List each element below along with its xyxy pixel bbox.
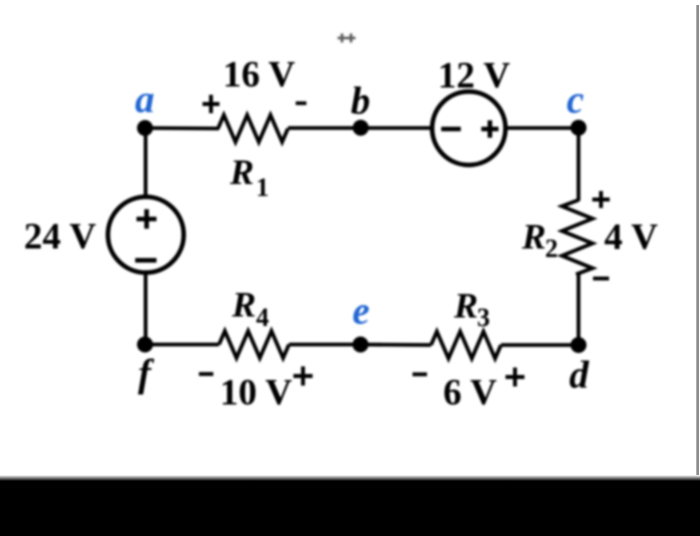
svg-text:4: 4 [256,303,269,332]
minus polarity at R4 left [199,372,213,376]
resistor R4 [219,331,289,358]
wire R1 right to node b [288,126,361,130]
node c junction dot [571,120,587,136]
plus polarity at R2 top [592,191,609,208]
svg-text:2: 2 [545,234,558,263]
svg-text:d: d [569,354,589,397]
svg-text:R: R [229,152,254,192]
bottom black bar [0,0,1,1]
node a junction dot [137,120,153,136]
svg-text:R: R [453,286,478,326]
wire source V1 up to node a [144,128,148,197]
right edge gray line [696,5,699,480]
resistor R2 (vertical) [562,200,593,274]
wire node d to R3 right [501,343,579,347]
svg-text:24 V: 24 V [24,217,97,258]
voltage source V2 12V circle [432,92,505,165]
svg-text:6 V: 6 V [443,373,497,414]
svg-text:R: R [521,217,546,257]
wire node f up to source V1 [144,272,148,345]
cursor mark ++ [338,34,356,43]
node b junction dot [353,120,369,136]
resistor R1 [218,115,288,142]
wire node e to R4 right [289,343,360,347]
svg-text:R: R [231,285,256,325]
plus polarity at R3 right [506,368,525,387]
svg-text:a: a [135,78,155,121]
voltage source V1 24V circle [108,197,184,273]
plus polarity at R4 right [293,366,312,385]
minus polarity at R2 bottom [593,277,609,281]
minus sign inside 24V [135,258,156,263]
svg-text:1: 1 [256,173,269,202]
wire source V2 to node c [505,126,579,130]
wire a to R1 left [145,126,219,130]
node f junction dot [137,337,153,353]
node d junction dot [571,337,587,353]
svg-text:3: 3 [477,303,490,332]
plus sign inside 12V [481,127,498,132]
wire node c down to R2 [577,128,581,201]
minus polarity at R1 right [296,101,307,105]
svg-text:c: c [567,79,584,122]
wire R2 bottom to node d [577,274,581,346]
svg-text:b: b [351,80,371,123]
node e junction dot [353,337,369,353]
svg-text:4 V: 4 V [604,217,658,258]
svg-text:12 V: 12 V [438,56,511,97]
resistor R3 [431,332,501,359]
svg-text:16 V: 16 V [223,55,296,96]
wire R4 left to node f [145,343,219,347]
wire R3 left to node e [360,343,431,347]
minus polarity at R3 left [413,372,428,376]
minus sign inside 12V [441,127,461,132]
svg-text:e: e [352,290,369,333]
svg-text:10 V: 10 V [220,373,293,414]
wire node b to source V2 [361,126,433,130]
plus polarity at R1 left [203,95,220,113]
plus sign inside 24V [137,217,157,222]
